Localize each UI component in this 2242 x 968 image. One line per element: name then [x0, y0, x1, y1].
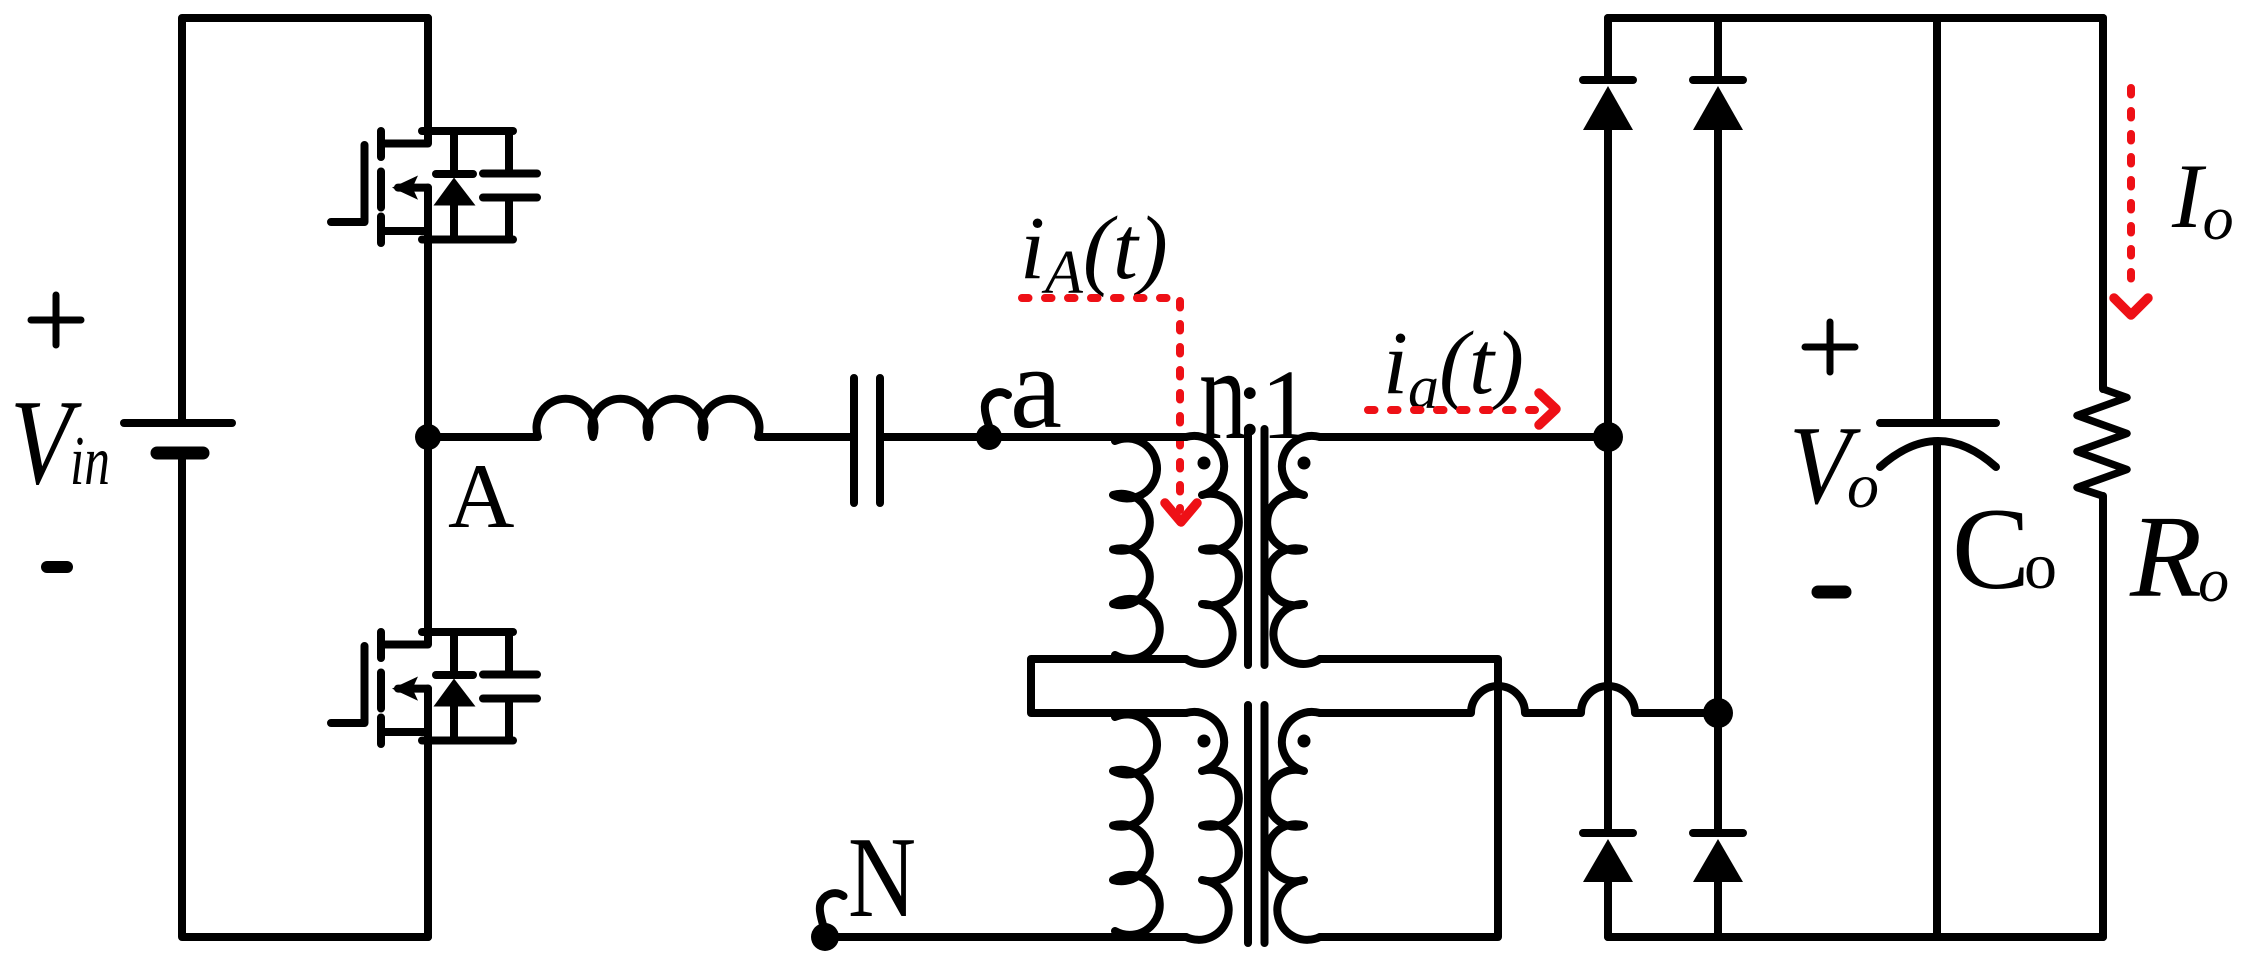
svg-text:in: in — [70, 423, 110, 500]
mosfet Q2 body arrow shaft — [398, 685, 428, 693]
rectifier right leg wire — [1714, 18, 1722, 937]
capacitor Co top lead — [1933, 18, 1941, 419]
transformer T2 primary winding outer column — [1113, 714, 1160, 934]
capacitor Cr plates — [854, 378, 880, 503]
svg-text:N: N — [848, 814, 916, 941]
wire rectifier bottom rail — [1608, 933, 2103, 941]
current arrow ia head — [1539, 393, 1556, 425]
mosfet Q1 box top bar — [422, 127, 513, 135]
diode D1 cathode bar — [1583, 76, 1633, 84]
mosfet Q1 drain lead and drain bar — [381, 18, 428, 144]
capacitor Co top plate — [1880, 419, 1996, 427]
rectifier left leg wire — [1604, 18, 1612, 937]
transformer T1 primary winding outer column — [1113, 438, 1160, 658]
wire input loop bottom: battery minus rail to half-bridge — [182, 456, 428, 937]
mosfet Q2 source bar — [381, 728, 428, 736]
wire T1 primary bottom jog to T2 primary top — [1031, 659, 1186, 713]
wire node a to transformer T1 primary — [989, 433, 1186, 441]
mosfet Q1 body arrow head — [392, 176, 418, 200]
transformer T1 core — [1248, 429, 1265, 665]
node a hook mark — [985, 392, 1008, 426]
current arrow Io dashed path — [2127, 88, 2135, 287]
transformer T1 primary dot — [1198, 457, 1211, 470]
mosfet Q2 source lead — [424, 689, 432, 937]
label + (output polarity) — [1805, 322, 1855, 372]
mosfet Q2 body arrow head — [392, 677, 418, 701]
transformer T1 secondary dot — [1298, 457, 1311, 470]
current arrow Io head — [2114, 298, 2148, 315]
mosfet Q1 gate — [331, 145, 365, 222]
mosfet Q1 capacitor branch — [505, 131, 513, 240]
wire T2 secondary top with crossover humps to rectifier — [1320, 686, 1718, 713]
node N hook mark — [820, 893, 844, 928]
transformer T2 core — [1248, 705, 1265, 943]
mosfet Q2 box top bar — [422, 628, 513, 636]
mosfet Q2 capacitor branch — [505, 632, 513, 741]
diode D3 triangle — [1583, 839, 1633, 882]
inductor Lr — [428, 399, 850, 437]
mosfet Q2 capacitor plates — [483, 675, 537, 699]
wire T1 secondary top to rectifier — [1320, 433, 1608, 441]
svg-text:Io: Io — [2171, 145, 2234, 253]
mosfet Q1 source bar — [381, 227, 428, 235]
svg-text:Co: Co — [1952, 485, 2057, 614]
mosfet Q2 body diode wire — [450, 632, 458, 741]
transformer T2 primary dot — [1198, 735, 1211, 748]
transformer T2 secondary dot — [1298, 735, 1311, 748]
diode D4 cathode bar — [1693, 829, 1743, 837]
mosfet Q1 box bottom bar — [422, 236, 513, 244]
mosfet Q1 capacitor plates — [483, 174, 537, 198]
node secondary-a junction dot — [1593, 422, 1623, 452]
mosfet Q1 body arrow shaft — [398, 184, 428, 192]
current arrow ia dashed path — [1368, 406, 1535, 414]
battery Vin short plate — [157, 447, 203, 460]
diode D1 triangle — [1583, 86, 1633, 130]
transformer T2 secondary winding — [1267, 712, 1320, 940]
node N junction dot — [811, 923, 839, 951]
mosfet Q2 drain lead and drain bar — [381, 437, 428, 645]
label - (output polarity) — [1818, 586, 1845, 599]
mosfet Q2 box bottom bar — [422, 737, 513, 745]
transformer T1 primary winding inner column — [1186, 436, 1239, 664]
current arrow iA head — [1165, 503, 1197, 522]
node A junction dot — [415, 424, 441, 450]
svg-text:A: A — [448, 445, 514, 547]
mosfet Q2 gate — [331, 646, 365, 723]
svg-text:ia(t): ia(t) — [1383, 314, 1524, 422]
mosfet Q1 source lead — [424, 188, 432, 437]
diode D2 triangle — [1693, 86, 1743, 130]
label + (input polarity) — [31, 295, 81, 345]
wire T1 secondary bottom to T2 secondary bottom — [1320, 659, 1498, 937]
svg-text:Ro: Ro — [2129, 491, 2229, 622]
diode D2 cathode bar — [1693, 76, 1743, 84]
mosfet Q1 channel bars — [377, 131, 385, 243]
capacitor Co curved plate — [1880, 441, 1996, 467]
current arrow iA dashed path — [1022, 298, 1180, 510]
wire node N to T2 primary bottom — [822, 933, 1186, 941]
svg-text:iA(t): iA(t) — [1020, 199, 1168, 307]
node secondary-b junction dot — [1703, 698, 1733, 728]
transformer T2 primary winding inner column — [1186, 712, 1239, 940]
mosfet Q1 body diode triangle — [434, 178, 476, 206]
mosfet Q2 body diode cathode bar — [436, 671, 473, 679]
node a junction dot — [976, 424, 1002, 450]
resistor Ro bottom lead — [2099, 496, 2107, 937]
resistor Ro top lead — [2099, 18, 2107, 389]
capacitor Co bottom lead — [1933, 442, 1941, 937]
wire capacitor to node a — [884, 433, 989, 441]
mosfet Q2 channel bars — [377, 632, 385, 744]
battery Vin long plate — [124, 419, 232, 427]
diode D3 cathode bar — [1583, 829, 1633, 837]
label - (input polarity) — [47, 561, 67, 573]
wire input loop top: battery plus rail to half-bridge — [182, 18, 428, 420]
mosfet Q1 body diode cathode bar — [436, 170, 473, 178]
svg-text:Vo: Vo — [1789, 404, 1879, 528]
mosfet Q2 body diode triangle — [434, 679, 476, 707]
wire rectifier top rail — [1608, 14, 2103, 22]
transformer T1 secondary winding — [1267, 436, 1320, 664]
resistor Ro zigzag — [2077, 389, 2127, 496]
diode D4 triangle — [1693, 839, 1743, 882]
mosfet Q1 body diode wire — [450, 131, 458, 240]
